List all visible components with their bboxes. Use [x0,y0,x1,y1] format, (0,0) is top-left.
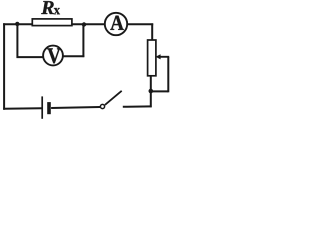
wire voltmeter left horizontal lead [17,56,45,58]
resistor Rx body [32,19,72,26]
wire slider tap horizontal at junction level [150,90,168,92]
wire slider arrow shaft [160,56,170,58]
wire rheostat top to top wire [151,23,153,40]
wire bottom from left corner to battery [3,107,41,110]
wire voltmeter right horizontal lead [63,55,84,57]
wire switch to bottom-right corner [123,105,152,107]
voltmeter V letter [47,48,60,63]
ammeter A letter [110,16,123,30]
label Rx : x subscript [54,8,60,14]
ammeter A circle [105,13,127,35]
wire junction up to rheostat bottom [150,76,152,92]
wire voltmeter right vertical to right node [82,25,84,58]
voltmeter V circle [43,46,63,66]
switch S pivot circle [100,104,104,108]
wire top horizontal (node from battery + through Rx and ammeter) [3,23,153,25]
rheostat slider arrowhead [156,54,161,59]
battery G1 long positive plate [41,96,43,118]
label Rx : R italic [41,1,54,14]
switch S blade (open) [105,91,122,105]
wire battery to switch [51,107,100,108]
node junction dot left of Rx [15,22,19,26]
wire right vertical (slider branch) [167,57,169,93]
battery G1 short negative plate [47,102,51,114]
node junction dot at rheostat bottom tap [149,89,154,94]
wire bottom-right vertical up to junction [150,91,152,107]
wire voltmeter left vertical from left node [16,24,18,58]
wire left vertical [3,23,5,109]
rheostat R body [148,40,156,76]
node junction dot right of Rx [82,22,86,26]
